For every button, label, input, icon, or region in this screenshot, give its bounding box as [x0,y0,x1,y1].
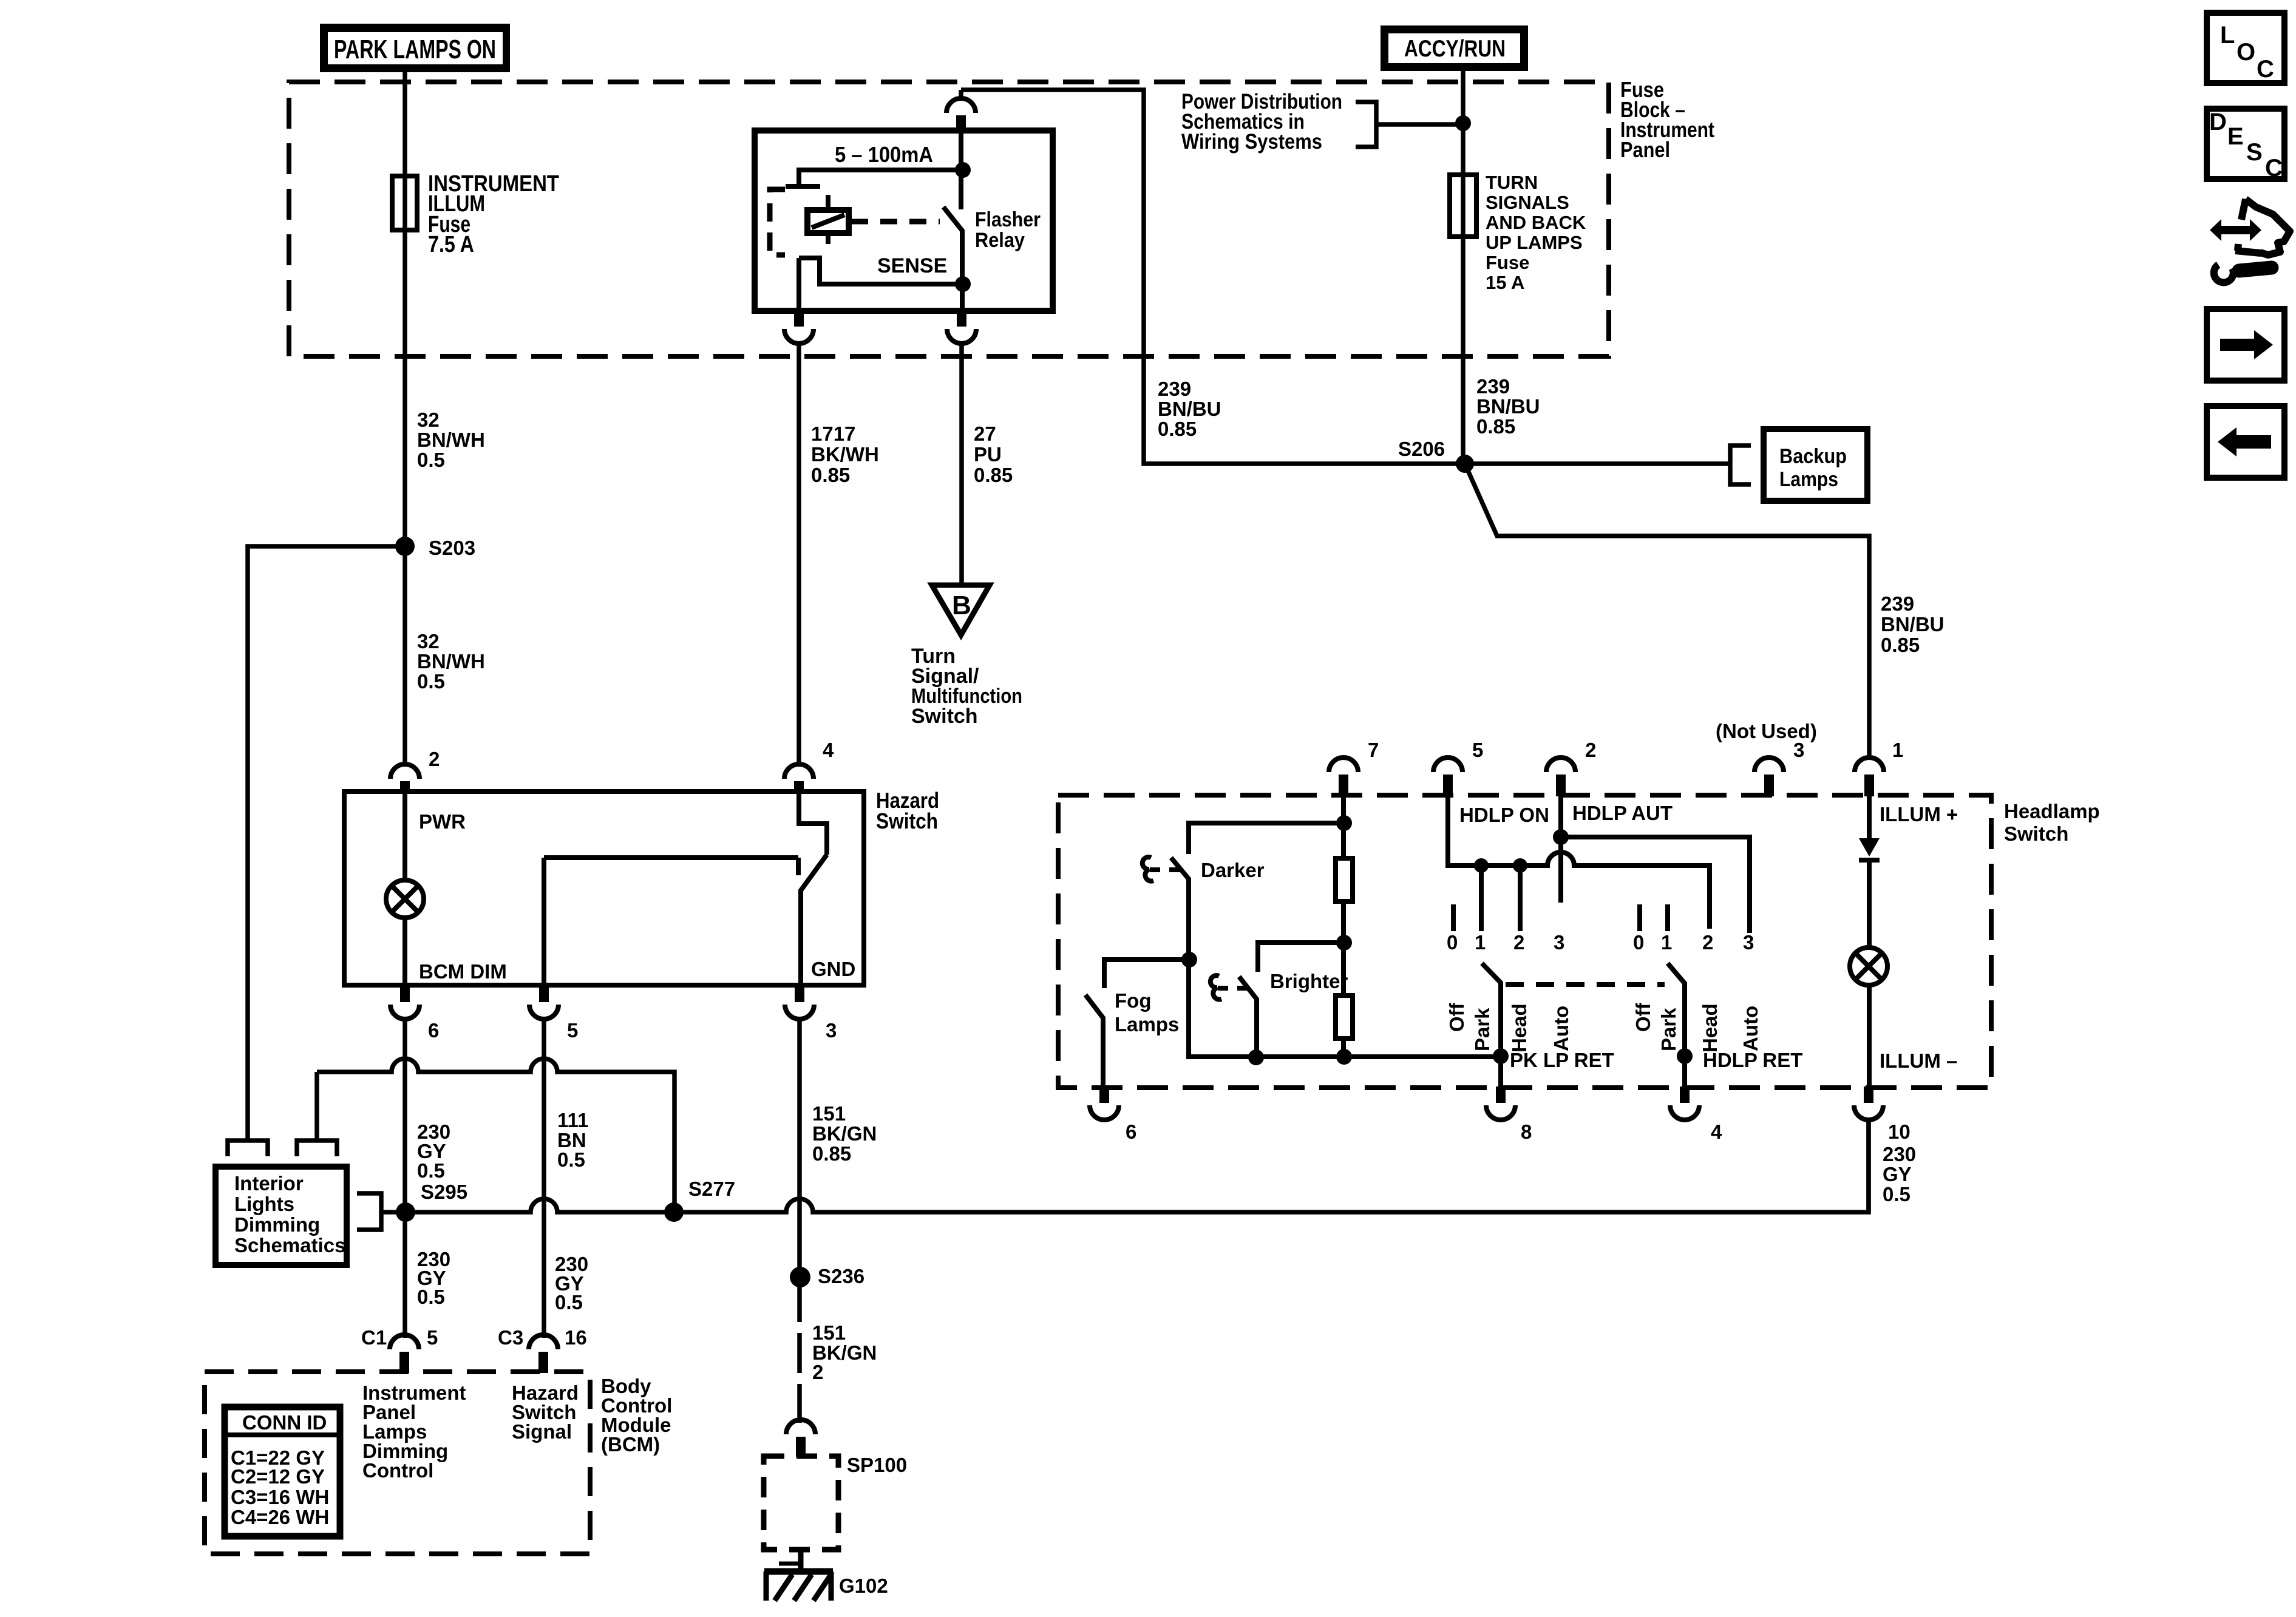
svg-text:0.85: 0.85 [1158,418,1197,440]
svg-text:7.5 A: 7.5 A [428,232,474,257]
svg-text:0.5: 0.5 [1883,1183,1911,1205]
svg-text:Signal: Signal [512,1420,572,1443]
svg-text:0.85: 0.85 [1881,634,1920,656]
svg-text:Head: Head [1699,1003,1721,1053]
svg-text:Headlamp: Headlamp [2004,800,2100,822]
svg-text:CONN ID: CONN ID [242,1411,327,1434]
svg-text:2: 2 [812,1361,823,1383]
svg-text:(BCM): (BCM) [601,1433,660,1456]
svg-text:Wiring Systems: Wiring Systems [1181,130,1322,154]
svg-text:Brighter: Brighter [1270,970,1348,992]
svg-text:Fog: Fog [1115,989,1151,1012]
svg-text:Switch: Switch [876,808,938,833]
svg-text:C2=12 GY: C2=12 GY [231,1465,325,1488]
svg-text:0.5: 0.5 [417,670,445,693]
svg-text:ACCY/RUN: ACCY/RUN [1404,36,1506,62]
svg-text:8: 8 [1521,1120,1532,1143]
svg-text:2: 2 [1585,739,1596,761]
svg-text:ILLUM –: ILLUM – [1880,1049,1957,1072]
svg-text:151: 151 [812,1321,846,1344]
svg-text:32: 32 [417,408,440,431]
svg-text:10: 10 [1888,1120,1911,1143]
svg-text:239: 239 [1881,592,1914,615]
svg-text:Park: Park [1657,1008,1680,1051]
svg-text:Park: Park [1471,1008,1493,1051]
svg-text:4: 4 [823,739,834,761]
svg-text:0.5: 0.5 [555,1291,583,1314]
svg-text:PARK LAMPS ON: PARK LAMPS ON [334,35,496,64]
svg-text:Head: Head [1508,1003,1530,1053]
svg-text:S236: S236 [818,1265,864,1287]
svg-text:Control: Control [362,1459,433,1482]
svg-text:5 – 100mA: 5 – 100mA [835,142,933,167]
svg-text:32: 32 [417,630,440,653]
svg-text:1: 1 [1661,931,1672,954]
svg-text:D: D [2209,109,2227,135]
svg-text:230: 230 [1883,1143,1916,1165]
svg-text:27: 27 [974,422,996,445]
svg-text:AND BACK: AND BACK [1486,212,1586,233]
svg-text:0.85: 0.85 [974,464,1013,486]
svg-text:Darker: Darker [1201,859,1265,881]
svg-text:Relay: Relay [975,229,1025,252]
svg-text:S277: S277 [688,1178,735,1200]
svg-text:0.85: 0.85 [811,464,850,486]
svg-text:GY: GY [1883,1163,1912,1185]
svg-text:Auto: Auto [1739,1006,1762,1051]
svg-text:GND: GND [811,958,855,980]
svg-text:Lights: Lights [234,1193,294,1215]
svg-text:Lamps: Lamps [1115,1013,1179,1036]
svg-text:6: 6 [1126,1120,1136,1143]
svg-text:0.5: 0.5 [417,1286,445,1308]
svg-text:S203: S203 [429,537,475,559]
svg-text:BCM DIM: BCM DIM [419,960,507,983]
svg-text:Schematics: Schematics [234,1234,345,1256]
svg-text:239: 239 [1476,375,1510,398]
svg-text:BN/BU: BN/BU [1476,395,1540,418]
svg-text:B: B [952,591,971,620]
svg-text:C: C [2257,56,2274,83]
svg-text:0.85: 0.85 [812,1142,851,1165]
svg-text:HDLP ON: HDLP ON [1459,804,1549,826]
svg-text:Off: Off [1632,1002,1654,1032]
svg-text:UP LAMPS: UP LAMPS [1486,232,1583,253]
svg-text:15 A: 15 A [1486,272,1524,293]
svg-text:C4=26 WH: C4=26 WH [231,1506,329,1528]
svg-text:Lamps: Lamps [1779,468,1838,491]
svg-text:S295: S295 [421,1181,467,1203]
svg-text:BN/BU: BN/BU [1158,398,1221,420]
svg-text:3: 3 [1743,931,1754,954]
svg-text:0: 0 [1633,931,1644,954]
svg-text:Auto: Auto [1550,1006,1572,1051]
svg-text:111: 111 [557,1109,588,1131]
svg-text:G102: G102 [839,1575,888,1597]
svg-text:HDLP AUT: HDLP AUT [1572,802,1673,824]
svg-text:SENSE: SENSE [877,254,947,277]
svg-text:239: 239 [1158,378,1191,400]
svg-text:5: 5 [427,1326,438,1349]
svg-text:2: 2 [1702,931,1713,954]
svg-text:C: C [2265,155,2283,181]
svg-text:Flasher: Flasher [975,208,1041,231]
svg-text:C3: C3 [498,1326,523,1349]
svg-text:O: O [2237,39,2255,66]
svg-text:2: 2 [1513,931,1524,954]
svg-text:BK/GN: BK/GN [812,1122,877,1145]
svg-text:S: S [2246,139,2263,166]
svg-text:0: 0 [1447,931,1458,954]
svg-text:7: 7 [1368,739,1379,761]
svg-text:SIGNALS: SIGNALS [1486,192,1569,213]
svg-text:(Not Used): (Not Used) [1716,720,1817,742]
svg-text:Backup: Backup [1779,445,1847,468]
svg-text:C3=16 WH: C3=16 WH [231,1486,329,1508]
svg-text:L: L [2220,22,2235,49]
svg-text:2: 2 [429,748,440,770]
svg-text:Off: Off [1445,1002,1468,1032]
svg-text:0.5: 0.5 [417,1159,445,1182]
svg-text:PWR: PWR [419,810,466,833]
svg-text:Switch: Switch [911,705,978,728]
svg-text:Fuse: Fuse [1486,252,1529,273]
svg-text:16: 16 [565,1326,587,1349]
svg-text:Panel: Panel [1620,137,1670,162]
svg-text:S206: S206 [1398,438,1445,460]
svg-text:BK/WH: BK/WH [811,443,879,466]
svg-text:BN/WH: BN/WH [417,650,485,673]
svg-text:BN/BU: BN/BU [1881,613,1944,636]
svg-text:5: 5 [1472,739,1483,761]
svg-text:0.5: 0.5 [557,1148,585,1171]
svg-text:1: 1 [1892,739,1903,761]
svg-text:6: 6 [428,1019,439,1042]
svg-text:Switch: Switch [2004,822,2068,845]
svg-text:SP100: SP100 [847,1454,907,1476]
svg-text:TURN: TURN [1486,172,1538,193]
svg-text:ILLUM +: ILLUM + [1880,803,1958,825]
svg-text:0.5: 0.5 [417,449,445,471]
svg-text:1: 1 [1475,931,1486,954]
svg-text:BN/WH: BN/WH [417,429,485,451]
svg-text:0.85: 0.85 [1476,415,1515,438]
svg-text:E: E [2227,123,2244,150]
svg-text:PU: PU [974,443,1002,466]
svg-text:C1: C1 [361,1326,387,1349]
svg-text:Dimming: Dimming [234,1213,320,1236]
svg-text:1717: 1717 [811,422,855,445]
svg-text:3: 3 [1554,931,1564,954]
svg-text:4: 4 [1711,1120,1722,1143]
svg-text:151: 151 [812,1102,846,1125]
svg-text:5: 5 [567,1019,578,1042]
svg-text:Interior: Interior [234,1172,304,1195]
svg-text:3: 3 [826,1019,837,1042]
